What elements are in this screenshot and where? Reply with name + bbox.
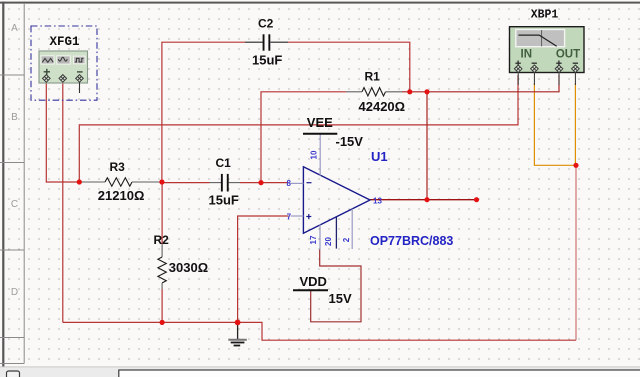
pin 17 V+ bottom — [309, 235, 318, 244]
value 42420ohm — [359, 99, 406, 114]
capacitor C2 — [245, 34, 288, 50]
wire J5 up to R1 left wire — [261, 92, 346, 183]
power VDD symbol — [293, 289, 328, 291]
label R1 — [365, 69, 381, 83]
svg-text:R2: R2 — [154, 233, 170, 247]
svg-text:10: 10 — [310, 150, 319, 159]
wire ground rail bottom — [63, 322, 576, 340]
wire net B: J2 up to C2 level — [162, 42, 245, 182]
label XFG1 — [49, 35, 79, 49]
junction node J8 output — [424, 197, 429, 202]
label R2 — [154, 233, 170, 247]
svg-text:15uF: 15uF — [209, 193, 239, 208]
svg-text:D: D — [11, 287, 18, 298]
svg-text:OP77BRC/883: OP77BRC/883 — [370, 234, 453, 248]
svg-text:XFG1: XFG1 — [49, 35, 79, 49]
bottom scrollbar strip — [0, 367, 640, 377]
resistor R3 — [79, 178, 162, 186]
svg-text:VEE: VEE — [307, 115, 333, 130]
wire J6 down to output node J8 — [426, 92, 428, 200]
wire C2 right to corner down to R1 left node J3 — [288, 42, 410, 92]
svg-text:IN: IN — [521, 48, 533, 60]
pin 13 output — [373, 197, 382, 206]
svg-text:B: B — [11, 112, 18, 123]
svg-text:13: 13 — [373, 197, 382, 206]
pin 2 bottom — [342, 237, 351, 242]
wire R2 top red segment — [161, 182, 163, 244]
svg-text:XBP1: XBP1 — [531, 9, 559, 22]
value 15V — [329, 291, 352, 306]
pin 20 bottom — [324, 237, 333, 246]
svg-text:15uF: 15uF — [252, 53, 282, 68]
junction node J6 — [424, 89, 429, 94]
value -15V — [336, 134, 364, 149]
label VEE — [307, 115, 333, 130]
sheet frame left border — [0, 2, 24, 368]
svg-text:C2: C2 — [258, 16, 274, 30]
wire orange XBP1 IN- down — [534, 83, 576, 165]
svg-text:2: 2 — [342, 237, 351, 242]
instrument XBP1 — [510, 27, 585, 85]
ground — [228, 322, 247, 345]
wire net B: J2 right to C1 left lead — [162, 182, 210, 184]
svg-text:15V: 15V — [329, 291, 352, 306]
label R3 — [110, 160, 126, 174]
label C1 — [216, 156, 232, 170]
svg-text:C1: C1 — [216, 156, 232, 170]
label XBP1 — [531, 9, 559, 22]
svg-text:21210Ω: 21210Ω — [98, 188, 145, 203]
wire R2 bottom red segment — [161, 289, 163, 322]
wire orange XBP1 OUT- down — [574, 83, 576, 165]
wire C1 right to J5 and to op-amp minus input — [240, 182, 289, 184]
op-amp U1 — [291, 135, 370, 250]
pin 10 V- top — [310, 150, 319, 159]
pin 8 inverting input — [286, 179, 291, 188]
svg-text:-15V: -15V — [336, 134, 364, 149]
svg-text:17: 17 — [309, 235, 318, 244]
svg-text:7: 7 — [287, 213, 292, 222]
wire XFG1 common terminal down to ground rail — [62, 83, 64, 322]
value 3030ohm — [169, 260, 208, 275]
junction node J3 — [407, 89, 412, 94]
wire op-amp output stub — [370, 199, 477, 201]
svg-text:A: A — [11, 23, 18, 34]
label C2 — [258, 16, 274, 30]
svg-text:42420Ω: 42420Ω — [359, 99, 406, 114]
svg-text:R1: R1 — [365, 69, 381, 83]
wire net A: XFG1 plus down and right to node J1 — [46, 83, 79, 182]
svg-text:20: 20 — [324, 237, 333, 246]
value C1 15uF — [209, 193, 239, 208]
svg-text:C: C — [11, 199, 18, 210]
wire end node output stub — [474, 197, 479, 202]
resistor R2 — [158, 244, 166, 289]
label VDD — [300, 274, 327, 289]
sheet frame top border — [0, 2, 640, 4]
svg-text:U1: U1 — [371, 149, 388, 164]
svg-text:3030Ω: 3030Ω — [169, 260, 208, 275]
label OP77BRC/883 — [370, 234, 453, 248]
wire R1 right to XBP1 OUT+ — [402, 75, 559, 92]
junction node orange riser — [573, 163, 578, 168]
label U1 — [371, 149, 388, 164]
junction node ground J7 — [235, 320, 241, 326]
junction node J1 — [77, 179, 82, 184]
junction node R2 bottom — [160, 320, 165, 325]
junction node J5 — [258, 180, 263, 185]
junction node J2 — [159, 179, 164, 184]
power VEE symbol — [303, 133, 337, 135]
wire op-amp plus input from ground junction J7 — [238, 216, 289, 322]
capacitor C1 — [210, 174, 241, 192]
value C2 15uF — [252, 53, 282, 68]
svg-text:VDD: VDD — [300, 274, 327, 289]
pin 7 non-inverting input — [287, 213, 292, 222]
value 21210ohm — [98, 188, 145, 203]
resistor R1 — [346, 88, 402, 96]
svg-text:8: 8 — [286, 179, 291, 188]
wire ground net right riser (light red) to XBP1 minus terminals — [575, 165, 577, 340]
instrument XFG1 — [31, 26, 97, 100]
wire net A: J1 up to y125 and right to XBP1 IN+ — [79, 75, 518, 182]
svg-text:OUT: OUT — [556, 48, 580, 60]
wire VDD loop to op-amp V+ pin — [311, 250, 361, 322]
svg-text:R3: R3 — [110, 160, 126, 174]
